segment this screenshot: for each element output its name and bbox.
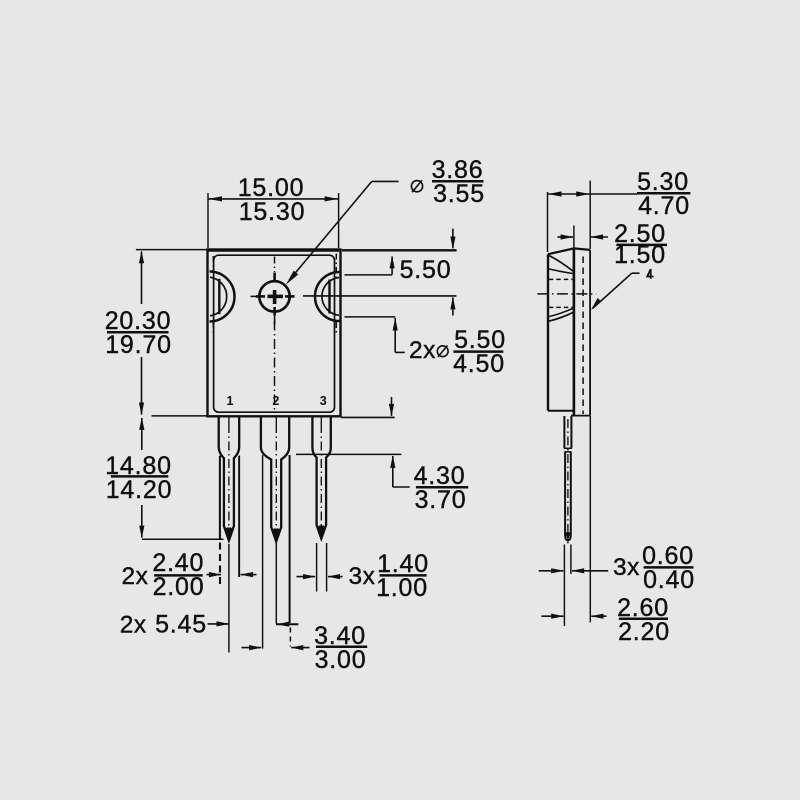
svg-text:19.70: 19.70	[105, 331, 172, 359]
svg-text:3x: 3x	[613, 554, 640, 581]
svg-text:5.45: 5.45	[155, 611, 207, 639]
svg-text:2x: 2x	[122, 563, 149, 590]
svg-text:3: 3	[320, 394, 327, 408]
svg-text:1.50: 1.50	[614, 241, 666, 269]
svg-text:3.55: 3.55	[433, 180, 485, 208]
svg-text:3.00: 3.00	[315, 646, 367, 674]
svg-text:2: 2	[272, 394, 279, 408]
svg-text:2x: 2x	[409, 337, 436, 364]
svg-text:15.30: 15.30	[239, 198, 306, 226]
svg-text:3x: 3x	[349, 563, 376, 590]
svg-text:2.00: 2.00	[153, 573, 205, 601]
svg-text:4.50: 4.50	[453, 350, 505, 378]
svg-text:14.20: 14.20	[106, 476, 173, 504]
svg-text:2x: 2x	[120, 612, 147, 639]
svg-text:1: 1	[227, 394, 234, 408]
svg-text:2.20: 2.20	[618, 618, 670, 646]
svg-text:4.70: 4.70	[638, 192, 690, 220]
svg-text:0.40: 0.40	[643, 566, 695, 594]
svg-text:5.50: 5.50	[400, 256, 452, 284]
svg-text:3.70: 3.70	[415, 486, 467, 514]
svg-text:1.00: 1.00	[376, 574, 428, 602]
